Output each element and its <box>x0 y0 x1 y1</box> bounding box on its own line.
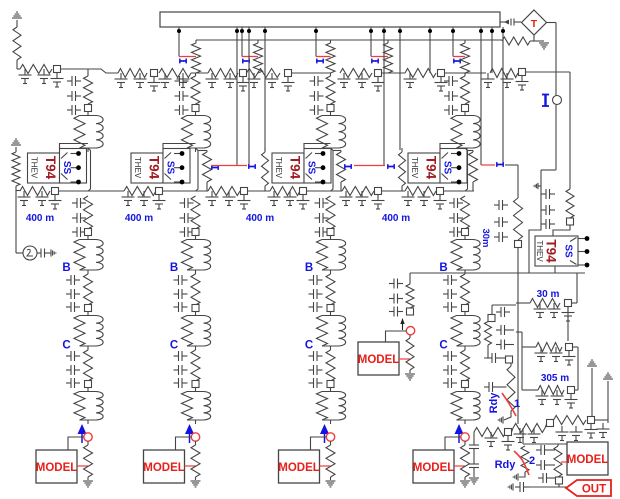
inductor chain2 RL2 <box>182 236 211 275</box>
resistor top R2 <box>254 40 263 73</box>
capacitor series rdy1 s2 <box>496 325 514 335</box>
wire right column down <box>517 248 519 425</box>
label 305m <box>541 373 569 384</box>
capacitor series chain2 cm1 <box>180 198 194 208</box>
MODEL block chain1 <box>36 450 78 483</box>
current probe I1 <box>179 57 196 64</box>
capacitor series rc3 <box>494 232 508 242</box>
node square chain2 nm3 <box>192 381 199 388</box>
svg-text:1: 1 <box>514 398 520 410</box>
node square ladder n4 <box>285 70 292 77</box>
resistor chain1 Rm1 <box>84 196 93 229</box>
capacitor series chain1 ct2 <box>67 91 81 101</box>
svg-text:C: C <box>305 340 313 352</box>
capacitor series chain4 cm3 <box>449 227 463 237</box>
ground chain2 <box>191 477 201 487</box>
wire mini chain top <box>409 273 411 284</box>
wire row2 seg6 <box>444 190 475 192</box>
capacitor series chain3 ct1 <box>310 76 324 86</box>
wire chain3 T94 top link <box>304 144 331 149</box>
node square chain4 nm3 <box>462 381 469 388</box>
wire row424 j1 <box>512 428 514 432</box>
wire 30m row lead <box>516 302 530 304</box>
node square row424 a <box>505 429 512 436</box>
capacitor series chain2 cc3 <box>174 378 188 388</box>
wire chain4 gapA link <box>468 150 474 152</box>
label C chain2 <box>170 340 178 352</box>
wire long bus drop 5 <box>398 27 402 150</box>
wire B row extension <box>410 272 585 274</box>
capacitor row424 c3 <box>556 426 569 441</box>
capacitor series chain2 ct1 <box>175 76 189 86</box>
node square chain1 nm1 <box>85 229 92 236</box>
wire row2 seg5 <box>382 190 406 192</box>
OUT tag <box>566 480 611 496</box>
capacitor series chain4 ct2 <box>444 91 458 101</box>
ground chain1 <box>83 477 93 487</box>
resistor chain3 Rload <box>326 441 335 477</box>
capacitor ladder c3 <box>51 73 64 88</box>
capacitor row2 c11 <box>297 195 310 210</box>
capacitor vertical capcol 2 <box>469 460 479 472</box>
wire block5 top leads <box>553 225 570 236</box>
capacitor ladder c10 <box>224 73 237 88</box>
wire row2 seg4 <box>307 190 343 192</box>
capacitor row2 c7 <box>223 191 236 206</box>
capacitor ladder c7 <box>159 73 172 88</box>
resistor chain2 Rm1 <box>191 196 200 229</box>
node square row2 n5 <box>375 188 382 195</box>
capacitor ladder c12 <box>248 73 261 88</box>
wire long bus drop 4 <box>382 27 386 165</box>
capacitor series rc1 <box>494 200 508 210</box>
resistor chain4 Rload <box>461 441 470 477</box>
capacitor series chain1 cm1 <box>72 198 86 208</box>
capacitor ladder c8 <box>177 73 190 88</box>
capacitor series chain4 cb2 <box>443 289 457 299</box>
wire rdy2 to ground <box>519 472 525 477</box>
node square chain4 nm2 <box>462 305 469 312</box>
node square ladder n5 <box>375 70 382 77</box>
current probe right column <box>497 162 503 167</box>
resistor chain4 Rt <box>461 76 470 104</box>
node square chain3 nm3 <box>327 381 334 388</box>
capacitor series chain1 ct1 <box>67 76 81 86</box>
wire chain2 gapA link <box>198 150 207 152</box>
ground top right <box>539 41 549 49</box>
resistor chain3 Rt <box>326 76 335 104</box>
wire bus drop 5 <box>451 27 455 57</box>
inductor chain1 RL2 <box>74 236 103 275</box>
wire row2 seg1 <box>59 190 125 192</box>
wire chain3 descend <box>331 148 334 191</box>
inductor chain4 RL1 (parallel RL) <box>451 112 480 153</box>
node square chain2 nm1 <box>192 229 199 236</box>
wire rdy1 elbow <box>484 345 488 358</box>
capacitor row2 c15 <box>402 191 415 206</box>
capacitor row424 c4 <box>570 426 583 441</box>
wire left to row2 <box>16 190 20 192</box>
ground antenna 1 (up) <box>587 360 597 416</box>
capacitor 30m c1 <box>534 303 547 318</box>
wire chain3 to MODEL <box>311 437 327 450</box>
wire ladder to right column <box>526 72 571 189</box>
AC source <box>16 246 37 260</box>
probe circle mini <box>406 327 414 335</box>
capacitor series chain1 cc3 <box>66 378 80 388</box>
capacitor series chain3 cc2 <box>309 365 323 375</box>
capacitor ladder c22 <box>516 76 529 91</box>
capacitor series chain4 cm1 <box>449 198 463 208</box>
T94 block 1 <box>28 149 87 185</box>
resistor row424 b <box>513 424 545 433</box>
resistor right column R1 <box>514 198 523 240</box>
wire capcol lead <box>473 432 475 441</box>
wire rdy1 stub <box>510 363 512 366</box>
capacitor series chain1 cb2 <box>66 289 80 299</box>
capacitor row424 c2 <box>528 428 541 443</box>
capacitor series chain3 cb1 <box>309 275 323 285</box>
wire ladder seg5 <box>445 72 466 74</box>
capacitor series chain3 cm3 <box>315 227 329 237</box>
resistor left vertical R_l1 <box>13 27 21 60</box>
node square row2 n4 <box>300 188 307 195</box>
svg-text:MODEL: MODEL <box>278 462 320 474</box>
label B chain2 <box>170 262 178 274</box>
svg-text:Rdy: Rdy <box>488 392 500 414</box>
capacitor series chain3 cm2 <box>315 213 329 223</box>
capacitor ladder c6 <box>148 77 161 92</box>
inductor chain1 RL1 (parallel RL) <box>74 112 103 153</box>
resistor row389 <box>538 386 564 395</box>
capacitor row424 c6 <box>597 423 610 438</box>
node square chain2 nt <box>192 105 199 112</box>
capacitor row389 c3 <box>565 394 578 409</box>
capacitor series mini 3 <box>389 307 403 317</box>
wire 30m row down <box>567 307 569 342</box>
inductor chain3 RL4 <box>317 388 346 425</box>
wire ladder jog <box>88 69 118 73</box>
label C chain1 <box>62 340 70 352</box>
MODEL block bottom right <box>567 442 609 475</box>
node square ladder n1 <box>54 66 61 73</box>
svg-text:2: 2 <box>529 455 535 467</box>
probe circle chain2 <box>191 433 199 441</box>
svg-text:T94: T94 <box>424 156 439 180</box>
capacitor row2 c9 <box>268 191 281 206</box>
top bus bar <box>160 12 500 27</box>
node square chain3 nt <box>327 105 334 112</box>
node square row345 <box>566 344 573 351</box>
wire horizontal net at y=40 <box>196 39 502 41</box>
resistor row345 <box>536 343 562 352</box>
resistor left vertical R_l2 <box>12 152 20 186</box>
svg-text:THEV: THEV <box>410 157 419 179</box>
svg-text:T94: T94 <box>147 156 162 180</box>
node square 30m row <box>565 300 572 307</box>
wire chain1 to MODEL <box>68 437 84 450</box>
wire long bus drop 2 <box>247 27 251 165</box>
label 1 blue <box>514 398 520 410</box>
wire row389 right down <box>575 389 579 391</box>
capacitor series mini 2 <box>389 294 403 304</box>
T94 block 4 <box>408 149 467 185</box>
capacitor series chain2 cm3 <box>180 227 194 237</box>
wire diamond to right <box>547 23 557 97</box>
capacitor row2 c17 <box>434 195 447 210</box>
capacitor series rdy2 col2 <box>536 460 555 470</box>
wire red MODEL link br <box>561 461 567 463</box>
wire 30m row up link <box>572 273 578 303</box>
wire chain3 gapA link <box>333 150 341 152</box>
capacitor series chain4 ct3 <box>444 105 458 115</box>
svg-text:SS: SS <box>165 161 176 175</box>
resistor chain1 Rload <box>84 441 93 477</box>
capacitor series chain2 ct2 <box>175 91 189 101</box>
wire red MODEL link chain3 <box>320 465 331 467</box>
capacitor series chain1 cm2 <box>72 213 86 223</box>
MODEL block chain3 <box>278 450 320 483</box>
capacitor ladder c9 <box>206 73 219 88</box>
capacitor row2 c2 <box>49 195 62 210</box>
capacitor row345 c3 <box>563 351 576 366</box>
capacitor series chain3 cc3 <box>309 378 323 388</box>
wire chain4 top junction <box>464 73 466 76</box>
node square row2 n3 <box>241 188 248 195</box>
current probe gap3 b <box>388 164 394 169</box>
node square mini chain <box>407 308 414 315</box>
svg-text:T94: T94 <box>288 156 303 180</box>
svg-text:C: C <box>439 340 447 352</box>
capacitor series chain3 cc1 <box>309 351 323 361</box>
capacitor series chain1 cb1 <box>66 275 80 285</box>
resistor ladder L5 <box>247 69 281 78</box>
ground chain3 <box>326 477 336 487</box>
capacitor ladder c17 <box>372 77 385 92</box>
label 30 m <box>537 289 560 300</box>
inductor chain3 RL2 <box>317 236 346 275</box>
label B chain3 <box>305 262 313 274</box>
wire rdy2 top <box>523 428 567 444</box>
inductor chain2 RL3 <box>182 312 211 351</box>
capacitor ladder c5 <box>134 73 147 88</box>
wire long bus drop 7 <box>479 27 483 165</box>
probe circle chain4 <box>461 433 469 441</box>
wire rdy1 to ground <box>504 411 511 420</box>
resistor Rdy1 <box>507 366 515 411</box>
capacitor row2 c5 <box>153 195 166 210</box>
label 400m chain2 <box>125 213 153 224</box>
label Rdy 2 <box>495 459 517 471</box>
wire ladder seg2 <box>191 72 208 74</box>
capacitor series bottom <box>515 482 529 492</box>
capacitor row2 c8 <box>238 195 251 210</box>
label C chain3 <box>305 340 313 352</box>
wire ladder seg4 <box>382 72 406 74</box>
wire row2 seg2 <box>163 190 209 192</box>
probe arrow chain1 <box>78 424 87 443</box>
capacitor series rc2 <box>494 217 508 227</box>
ground mini chain <box>405 370 415 380</box>
wire right column top <box>505 165 518 198</box>
resistor chain2 Rt <box>191 76 200 104</box>
capacitor series chain4 cc3 <box>443 378 457 388</box>
node square bottom right <box>556 477 563 487</box>
svg-text:T94: T94 <box>43 156 58 180</box>
wire bus to source symbol <box>500 21 505 23</box>
resistor chain2 Rm3 <box>191 350 200 381</box>
capacitor series chain2 cc1 <box>174 351 188 361</box>
wire long bus drop 1 <box>235 27 239 165</box>
node square ladder n2 <box>151 70 158 77</box>
wire chain4 descend <box>465 148 468 191</box>
capacitor 30m c2 <box>548 303 561 318</box>
svg-text:400 m: 400 m <box>382 213 410 224</box>
node square chain4 nt <box>462 105 469 112</box>
resistor chain4 Rm1 <box>461 196 470 229</box>
capacitor ladder c18 <box>404 73 417 88</box>
resistor chain4 Rm2 <box>461 274 470 305</box>
wire bottom to OUT <box>529 486 567 488</box>
capacitor series rdy2 col1 <box>536 445 555 455</box>
resistor chain3 Rm1 <box>326 196 335 229</box>
T94 block 2 <box>131 149 190 185</box>
resistor ladder L8 <box>490 69 518 78</box>
T94 block 5 <box>535 236 589 267</box>
inductor chain1 RL3 <box>74 312 103 351</box>
capacitor row389 c1 <box>536 390 549 405</box>
capacitor series chain3 cb2 <box>309 289 323 299</box>
capacitor row2 c12 <box>340 191 353 206</box>
probe arrow chain4 <box>455 424 464 443</box>
svg-text:OUT: OUT <box>582 484 606 496</box>
resistor top R1 <box>192 40 201 73</box>
resistor chain2 Rm2 <box>191 274 200 305</box>
node square chain1 nt <box>85 105 92 112</box>
capacitor row424 c0 <box>485 432 498 447</box>
wire ladder seg6 <box>465 72 486 74</box>
capacitor series chain1 cb3 <box>66 302 80 312</box>
label 400m chain1 <box>26 213 54 224</box>
capacitor row2 c4 <box>138 191 151 206</box>
probe arrow mini (black) <box>400 318 404 330</box>
node square right column <box>515 241 522 248</box>
resistor top R5 <box>461 40 470 73</box>
resistor bottom right R <box>554 444 562 477</box>
capacitor series chain2 ct3 <box>175 105 189 115</box>
wire chain2 top junction <box>195 73 197 76</box>
capacitor row2 c6 <box>206 191 219 206</box>
resistor chain3 Rm2 <box>326 274 335 305</box>
svg-text:C: C <box>62 340 70 352</box>
resistor chain3 Rm3 <box>326 350 335 381</box>
capacitor row424 c1 <box>514 428 527 443</box>
inductor chain4 RL4 <box>451 388 480 425</box>
MODEL block chain4 <box>413 450 455 483</box>
label 400m chain3 <box>246 213 274 224</box>
wire diamond bottom <box>530 35 542 41</box>
node square chain2 nm2 <box>192 305 199 312</box>
ground right of AC source <box>48 249 56 256</box>
ground rdy1 (left) <box>498 416 503 423</box>
ground antenna 2 (up) <box>603 373 613 423</box>
svg-text:305 m: 305 m <box>541 373 569 384</box>
capacitor ladder c13 <box>266 73 279 88</box>
resistor gap chain4 RA <box>469 151 478 192</box>
capacitor ladder c15 <box>338 73 351 88</box>
capacitor series rdy1 c <box>484 382 507 392</box>
capacitor row2 c13 <box>356 191 369 206</box>
svg-text:MODEL: MODEL <box>143 462 185 474</box>
wire chain4 to MODEL <box>445 437 461 450</box>
capacitor series chain1 cc1 <box>66 351 80 361</box>
resistor row2 b <box>124 187 156 196</box>
resistor row2 c <box>208 187 240 196</box>
inductor chain1 RL4 <box>74 388 103 425</box>
controlled source T (diamond) <box>522 10 547 35</box>
node square chain4 nm1 <box>462 229 469 236</box>
capacitor row2 c16 <box>418 191 431 206</box>
node square right column n2 <box>567 218 574 225</box>
resistor row424 c <box>554 416 587 425</box>
label 400m chain4 <box>382 213 410 224</box>
wire chain2 descend <box>196 148 199 191</box>
wire chain4 T94 top link <box>440 144 465 149</box>
node square row424 m <box>547 420 554 427</box>
resistor gap chain3 RA <box>337 151 346 192</box>
capacitor ladder c4 <box>115 73 128 88</box>
node square row2 n6 <box>437 188 444 195</box>
probe circle chain3 <box>326 433 334 441</box>
svg-text:THEV: THEV <box>30 157 39 179</box>
capacitor row2 c10 <box>284 191 297 206</box>
capacitor row2 c1 <box>18 191 49 206</box>
resistor ladder L1 <box>20 65 52 74</box>
wire bus drop 1 <box>177 27 181 57</box>
svg-text:SS: SS <box>563 244 574 258</box>
resistor row2 f <box>405 187 436 196</box>
capacitor series rc5 <box>541 205 555 215</box>
current probe I3 <box>316 57 331 64</box>
label C chain4 <box>439 340 447 352</box>
capacitor ladder c20 <box>482 73 495 88</box>
wire bus drop 4 <box>369 27 373 57</box>
svg-text:C: C <box>170 340 178 352</box>
resistor row2 e <box>342 187 374 196</box>
wire bus drop 3 <box>314 27 318 57</box>
capacitor ladder c11 <box>237 77 250 92</box>
capacitor series chain1 cc2 <box>66 365 80 375</box>
wire red MODEL link chain2 <box>185 465 196 467</box>
capacitor series chain3 cm1 <box>315 198 329 208</box>
wire row424 right <box>595 419 609 421</box>
ground top left (up) <box>12 12 22 27</box>
capacitor series chain2 cb3 <box>174 302 188 312</box>
node square chain1 nm3 <box>85 381 92 388</box>
current meter I <box>542 95 562 107</box>
resistor chain1 Rm3 <box>84 350 93 381</box>
node square chain1 nm2 <box>85 305 92 312</box>
capacitor series rdy2 col3 <box>538 473 556 483</box>
MODEL block chain2 <box>143 450 185 483</box>
label Rdy 1 rotated <box>488 392 500 414</box>
capacitor row345 c2 <box>550 347 563 362</box>
wire row2 seg3 <box>248 190 271 192</box>
wire capcol bottom <box>473 472 475 477</box>
capacitor series chain1 ct3 <box>67 105 81 115</box>
resistor ladder L2 <box>118 69 147 78</box>
ground bottom left small <box>508 483 513 490</box>
